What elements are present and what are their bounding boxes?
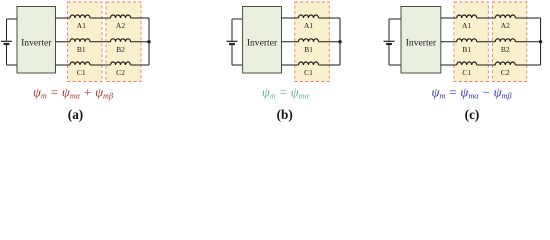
winding A1 (b) bbox=[299, 15, 319, 18]
svg-text:C1: C1 bbox=[462, 68, 471, 77]
winding B1 (b) bbox=[299, 39, 319, 42]
svg-text:B1: B1 bbox=[304, 45, 313, 54]
svg-text:Inverter: Inverter bbox=[247, 38, 278, 49]
svg-text:ψm = ψmα − ψmβ: ψm = ψmα − ψmβ bbox=[431, 86, 512, 101]
svg-text:C2: C2 bbox=[501, 68, 510, 77]
wire B2 to neutral (a) bbox=[131, 41, 150, 43]
battery V (a) bbox=[1, 19, 12, 65]
svg-text:(a): (a) bbox=[68, 107, 83, 122]
wire battery to inverter top (c) bbox=[389, 18, 401, 20]
wire A1 to neutral (b) bbox=[319, 17, 341, 19]
wire phase C (c) bbox=[441, 64, 457, 66]
svg-text:Inverter: Inverter bbox=[21, 38, 52, 49]
neutral bus (a) bbox=[148, 18, 150, 65]
svg-text:B2: B2 bbox=[501, 45, 510, 54]
svg-text:C2: C2 bbox=[116, 68, 125, 77]
wire battery to inverter bottom (c) bbox=[389, 64, 401, 66]
wire C1 to C2 (c) bbox=[477, 64, 496, 66]
wire battery to inverter bottom (a) bbox=[7, 64, 18, 66]
winding A2 (a) bbox=[111, 15, 131, 18]
winding C1 (a) bbox=[70, 62, 90, 65]
wire C2 to neutral (c) bbox=[515, 64, 540, 66]
neutral bus (c) bbox=[540, 18, 542, 65]
svg-text:ψm = ψmα: ψm = ψmα bbox=[262, 86, 310, 101]
svg-text:Inverter: Inverter bbox=[406, 38, 437, 49]
wire phase B (b) bbox=[282, 41, 299, 43]
inverter U (a) bbox=[17, 7, 56, 74]
svg-text:A2: A2 bbox=[501, 21, 510, 30]
wire battery to inverter top (a) bbox=[7, 18, 18, 20]
winding A1 (c) bbox=[457, 15, 477, 18]
wire A1 to A2 (c) bbox=[477, 17, 496, 19]
neutral bus (b) bbox=[339, 18, 341, 65]
winding B2 (c) bbox=[495, 39, 515, 42]
wire B2 to neutral (c) bbox=[515, 41, 540, 43]
wire phase A (a) bbox=[56, 17, 71, 19]
winding B1 (a) bbox=[70, 39, 90, 42]
neutral node (a) bbox=[147, 40, 150, 43]
wire phase B (c) bbox=[441, 41, 457, 43]
wire A1 to A2 (a) bbox=[90, 17, 111, 19]
svg-text:A1: A1 bbox=[77, 21, 86, 30]
winding C1 (c) bbox=[457, 62, 477, 65]
inverter U (c) bbox=[401, 7, 441, 74]
svg-text:B1: B1 bbox=[462, 45, 471, 54]
winding C2 (a) bbox=[111, 62, 131, 65]
svg-text:ψm = ψmα + ψmβ: ψm = ψmα + ψmβ bbox=[33, 86, 114, 101]
winding A1 (a) bbox=[70, 15, 90, 18]
svg-text:(b): (b) bbox=[277, 107, 293, 122]
wire phase C (a) bbox=[56, 64, 71, 66]
winding A2 (c) bbox=[495, 15, 515, 18]
wire battery to inverter bottom (b) bbox=[232, 64, 243, 66]
wire phase A (b) bbox=[282, 17, 299, 19]
neutral node (c) bbox=[539, 40, 542, 43]
wire B1 to B2 (c) bbox=[477, 41, 496, 43]
winding set 1 box (a) bbox=[68, 2, 103, 82]
svg-text:B2: B2 bbox=[116, 45, 125, 54]
wire C1 to C2 (a) bbox=[90, 64, 111, 66]
wire battery to inverter top (b) bbox=[232, 18, 243, 20]
winding B1 (c) bbox=[457, 39, 477, 42]
neutral node (b) bbox=[338, 40, 341, 43]
svg-text:(c): (c) bbox=[465, 107, 480, 122]
svg-text:C1: C1 bbox=[304, 68, 313, 77]
svg-text:A2: A2 bbox=[116, 21, 125, 30]
wire phase C (b) bbox=[282, 64, 299, 66]
winding C2 (c) bbox=[495, 62, 515, 65]
wire A2 to neutral (a) bbox=[131, 17, 150, 19]
svg-text:C1: C1 bbox=[77, 68, 86, 77]
svg-text:A1: A1 bbox=[462, 21, 471, 30]
inverter U (b) bbox=[243, 7, 282, 74]
battery V (c) bbox=[384, 19, 395, 65]
wire phase B (a) bbox=[56, 41, 71, 43]
winding set 2 box (a) bbox=[106, 2, 141, 82]
winding set box (b) bbox=[295, 2, 330, 82]
wire C2 to neutral (a) bbox=[131, 64, 150, 66]
svg-text:B1: B1 bbox=[77, 45, 86, 54]
wire B1 to neutral (b) bbox=[319, 41, 341, 43]
winding B2 (a) bbox=[111, 39, 131, 42]
winding C1 (b) bbox=[299, 62, 319, 65]
wire phase A (c) bbox=[441, 17, 457, 19]
wire A2 to neutral (c) bbox=[515, 17, 540, 19]
svg-text:A1: A1 bbox=[304, 21, 313, 30]
winding set 2 box (c) bbox=[492, 2, 526, 82]
battery V (b) bbox=[227, 19, 238, 65]
wire B1 to B2 (a) bbox=[90, 41, 111, 43]
winding set 1 box (c) bbox=[454, 2, 488, 82]
wire C1 to neutral (b) bbox=[319, 64, 341, 66]
